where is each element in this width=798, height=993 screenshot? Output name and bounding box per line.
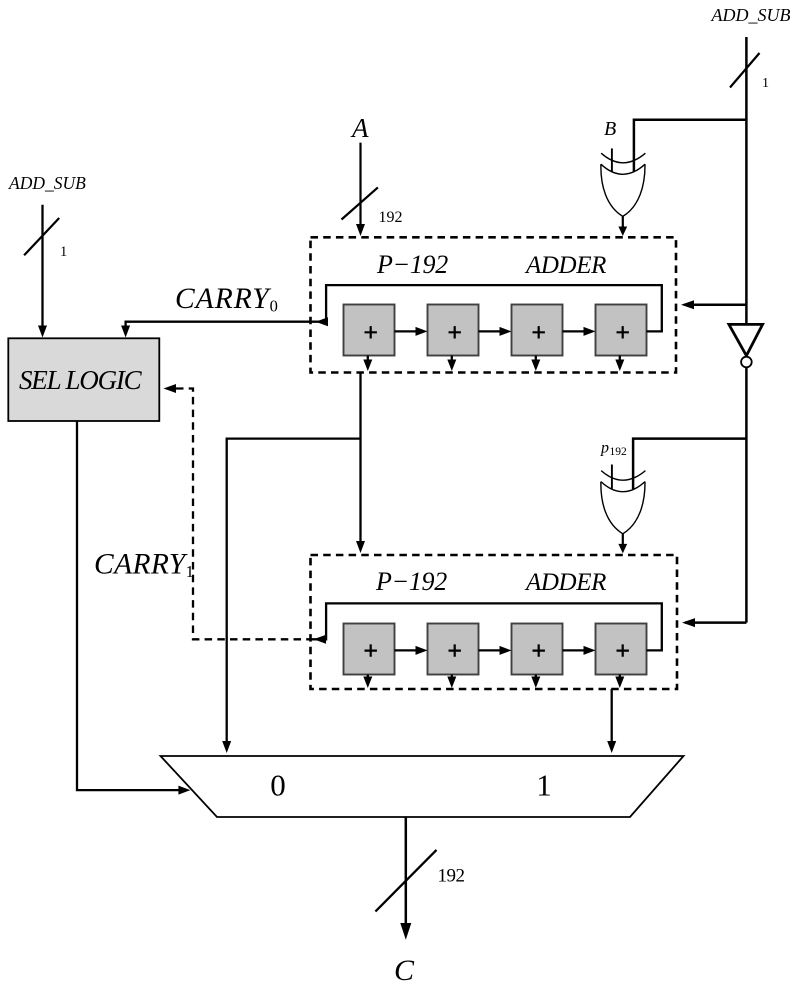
wire carry-in to adder2	[685, 621, 746, 624]
wire adder1 sum to adder2	[359, 373, 361, 544]
wire p192 input stub	[611, 465, 613, 489]
wire adder1 cell2->cell3	[479, 330, 509, 332]
wire adder1 cell3->cell4	[563, 330, 593, 332]
svg-text:CARRY0: CARRY0	[175, 283, 278, 316]
wire A input	[359, 143, 361, 226]
svg-text:1: 1	[536, 768, 552, 803]
wire adder1 cell2 sum out	[451, 356, 453, 363]
adder2 cell 2	[428, 624, 479, 675]
svg-text:CARRY1: CARRY1	[94, 549, 194, 582]
adder1 cell 4	[596, 305, 647, 356]
wire XOR U2 output	[622, 534, 624, 545]
adder1 cell 3	[512, 305, 563, 356]
wire to XOR U2	[633, 439, 746, 489]
wire adder2 output to mux input 1	[611, 689, 613, 746]
svg-text:B: B	[604, 118, 616, 140]
adder1 cell 2	[428, 305, 479, 356]
mux M1 trapezoid	[161, 756, 684, 817]
wire CARRY0 to SEL LOGIC	[126, 322, 311, 328]
xor gate U1	[601, 153, 646, 216]
wire adder2 cell2->cell3	[479, 649, 509, 651]
bus slash ADD_SUB right	[730, 53, 760, 88]
svg-text:SEL LOGIC: SEL LOGIC	[19, 365, 143, 395]
wire branch to mux input 0	[227, 439, 361, 746]
wire adder1 cell1 sum out	[367, 356, 369, 363]
adder2 cell 1	[344, 624, 395, 675]
wire mux output C	[405, 817, 408, 925]
svg-text:192: 192	[610, 446, 628, 458]
block adder1 dashed box	[311, 237, 677, 372]
wire ADD_SUB to XOR U1	[634, 120, 747, 172]
wire adder2 cell1 sum out	[367, 675, 369, 680]
block SEL LOGIC	[8, 338, 159, 421]
wire carry-in to adder1 (from ADD_SUB)	[684, 303, 746, 306]
svg-text:192: 192	[379, 209, 403, 226]
wire adder1 cell1->cell2	[395, 330, 425, 332]
wire XOR U1 output	[622, 216, 624, 227]
wire adder2 cell3->cell4	[563, 649, 593, 651]
svg-text:P−192: P−192	[376, 250, 448, 279]
svg-text:1: 1	[762, 76, 769, 91]
bus slash output	[375, 850, 436, 912]
svg-text:A: A	[350, 113, 369, 143]
adder2 cell 3	[512, 624, 563, 675]
svg-text:ADD_SUB: ADD_SUB	[8, 173, 86, 193]
svg-text:ADD_SUB: ADD_SUB	[711, 5, 791, 25]
svg-text:p: p	[600, 439, 609, 456]
wire adder2 cell2 sum out	[451, 675, 453, 680]
svg-text:P−192: P−192	[375, 567, 447, 596]
wire ADD_SUB vertical (right)	[745, 37, 748, 324]
adder2 cell 4	[596, 624, 647, 675]
inverter U3	[729, 324, 763, 355]
bus slash ADD_SUB left	[24, 218, 59, 255]
svg-text:0: 0	[270, 768, 286, 803]
wire B input stub	[611, 148, 613, 171]
svg-text:192: 192	[438, 866, 465, 887]
wire adder1 cell3 sum out	[535, 356, 537, 363]
svg-text:C: C	[394, 954, 415, 987]
xor gate U2	[601, 471, 646, 534]
wire adder2 carry feedback / CARRY1 out	[311, 603, 662, 650]
svg-text:ADDER: ADDER	[524, 252, 606, 279]
wire CARRY1 dashed to SEL LOGIC	[176, 389, 311, 640]
wire SEL LOGIC select to mux	[77, 421, 184, 790]
wire inverter output vertical	[745, 368, 748, 623]
wire adder2 cell1->cell2	[395, 649, 425, 651]
svg-text:ADDER: ADDER	[524, 569, 606, 596]
wire adder2 cell3 sum out	[535, 675, 537, 680]
svg-text:1: 1	[60, 244, 67, 260]
wire adder1 cell4 sum out	[619, 356, 621, 363]
block adder2 dashed box	[311, 555, 678, 689]
adder1 cell 1	[344, 305, 395, 356]
wire adder1 carry feedback / CARRY0 out	[311, 285, 662, 331]
wire ADD_SUB left vertical	[41, 205, 43, 328]
wire adder2 cell4 sum out	[619, 675, 621, 680]
bus slash A	[342, 187, 378, 219]
